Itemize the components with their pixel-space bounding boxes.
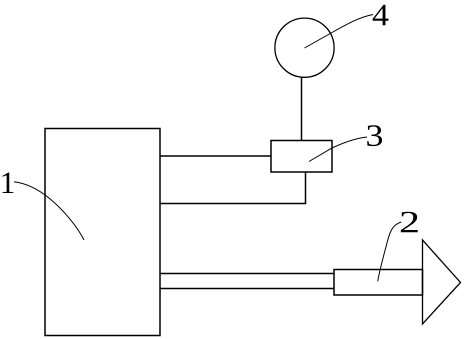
- wire: pipe lower line from component 1 to nozzle body: [160, 288, 334, 290]
- wire: circle 4 down to component 3: [301, 77, 303, 141]
- wire: component 3 bottom down segment: [305, 172, 307, 204]
- component 2: nozzle body rectangle: [334, 270, 423, 296]
- label 4: [373, 5, 389, 25]
- component 2: arrowhead triangle: [423, 240, 461, 324]
- component 1: main body rectangle: [45, 129, 160, 336]
- leader line to label 1: [14, 182, 84, 240]
- wire: horizontal return to component 1: [160, 203, 306, 205]
- leader line to label 2: [378, 222, 402, 281]
- label 2: [401, 212, 418, 233]
- component 4: circle (gauge): [275, 18, 334, 77]
- wire: pipe upper line from component 1 to nozzle body: [160, 273, 334, 275]
- label 1: [2, 173, 13, 193]
- leader line to label 3: [309, 137, 367, 162]
- component 3: small box: [271, 141, 332, 173]
- leader line to label 4: [305, 15, 374, 49]
- wire: component 1 right side to component 3 left side: [160, 155, 271, 157]
- label 3: [367, 125, 382, 146]
